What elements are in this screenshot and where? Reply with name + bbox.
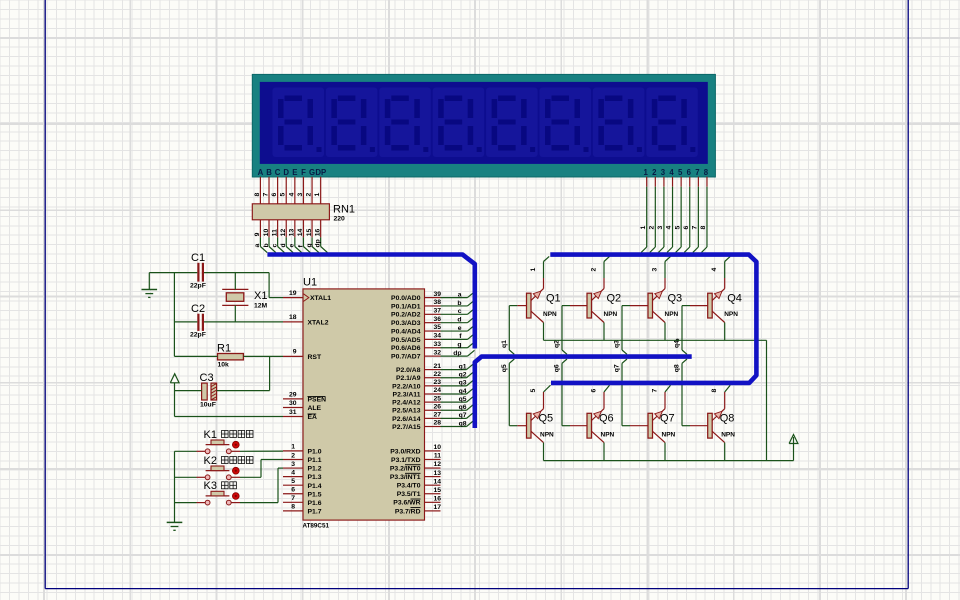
svg-text:4: 4	[666, 226, 673, 230]
svg-text:c: c	[271, 244, 278, 248]
wire: Q8 collector-top to digit bus return (net 8)	[711, 385, 730, 409]
svg-text:12: 12	[433, 461, 441, 468]
svg-text:NPN: NPN	[724, 311, 738, 318]
svg-text:2: 2	[306, 193, 313, 197]
svg-text:C3: C3	[200, 372, 214, 384]
wire: top emitter rail	[544, 340, 767, 460]
wire: Q4 emitter-bottom to rail	[724, 323, 726, 341]
wire: Q1 emitter-bottom to rail	[543, 323, 545, 341]
svg-text:X1: X1	[254, 290, 267, 302]
svg-text:7: 7	[692, 226, 699, 230]
bus: segment bus from RN1 to U1 P0 (nets a-dp)	[267, 255, 474, 349]
svg-text:4: 4	[669, 168, 674, 177]
svg-text:8: 8	[291, 504, 295, 511]
svg-text:1: 1	[530, 268, 537, 272]
transistor Q8 (NPN)	[690, 409, 735, 443]
svg-text:31: 31	[289, 409, 297, 416]
svg-text:22: 22	[433, 371, 441, 378]
svg-text:Q1: Q1	[546, 293, 561, 305]
svg-text:K1: K1	[204, 429, 217, 441]
K1 label (Chinese)	[222, 431, 254, 438]
MCU U1 AT89C51	[303, 277, 425, 530]
svg-text:b: b	[457, 300, 461, 307]
K3 label (Chinese)	[222, 482, 237, 489]
svg-text:15: 15	[306, 229, 313, 237]
svg-text:22pF: 22pF	[190, 332, 206, 339]
transistor Q2 (NPN)	[570, 289, 621, 323]
svg-text:2: 2	[291, 452, 295, 459]
transistor Q4 (NPN)	[690, 289, 742, 323]
svg-text:e: e	[289, 244, 296, 248]
8-digit 7-segment display DS1	[252, 74, 715, 177]
svg-text:P0.3/AD3: P0.3/AD3	[391, 320, 421, 327]
svg-text:3: 3	[291, 461, 295, 468]
svg-text:P2.7/A15: P2.7/A15	[392, 424, 421, 431]
wire: Q4 base to q-bus (net q4)	[674, 306, 691, 355]
wire: bottom emitter rail	[544, 460, 794, 462]
svg-text:q5: q5	[501, 364, 508, 372]
wire: Q7 emitter-bottom to rail	[664, 443, 666, 461]
svg-text:B: B	[266, 168, 272, 177]
wire: K2 to P1.1	[240, 460, 283, 478]
svg-text:P1.2: P1.2	[308, 466, 322, 473]
display segment pins (to RN1)	[254, 177, 321, 204]
U1 pin 19 XTAL1	[283, 290, 331, 302]
svg-text:17: 17	[433, 504, 441, 511]
U1 pins 1-8 P1.0-P1.7	[283, 444, 322, 516]
wire: Q7 collector-top to digit bus return (net 7)	[652, 385, 671, 409]
svg-text:P3.1/TXD: P3.1/TXD	[391, 457, 421, 464]
svg-text:NPN: NPN	[662, 431, 676, 438]
svg-text:11: 11	[434, 453, 441, 460]
svg-text:G: G	[309, 168, 315, 177]
svg-text:5: 5	[674, 226, 681, 230]
svg-text:Q2: Q2	[607, 293, 622, 305]
svg-text:P0.4/AD4: P0.4/AD4	[391, 328, 421, 335]
power +V arrow (at C3)	[170, 374, 179, 391]
svg-text:q3: q3	[614, 340, 621, 348]
capacitor C1 22pF	[190, 252, 206, 290]
U1 pin 31 EA	[283, 409, 317, 421]
svg-text:9: 9	[293, 349, 297, 356]
wire: K3 to P1.2	[240, 468, 283, 503]
svg-text:6: 6	[291, 487, 295, 494]
ground (top left)	[142, 273, 158, 298]
svg-text:NPN: NPN	[721, 431, 735, 438]
push button K2	[197, 455, 241, 480]
svg-text:8: 8	[254, 193, 261, 197]
svg-text:6: 6	[271, 193, 278, 197]
power +V arrow (transistor rail)	[789, 435, 798, 461]
svg-text:10uF: 10uF	[200, 402, 216, 409]
U1 pins 10-17 P3.0-P3.7	[390, 444, 441, 515]
svg-text:22pF: 22pF	[190, 283, 206, 290]
svg-text:P0.1/AD1: P0.1/AD1	[391, 303, 421, 310]
bus: q-bus from U1 P2 to transistor bases (nets q1-q8)	[475, 357, 692, 428]
svg-text:10: 10	[433, 444, 441, 451]
svg-text:q4: q4	[459, 388, 467, 395]
wire: Q7 base from q-bus (net q7)	[614, 359, 631, 426]
wire: Q6 emitter-bottom to rail	[603, 443, 605, 461]
svg-text:15: 15	[433, 487, 441, 494]
svg-text:R1: R1	[217, 343, 231, 355]
svg-text:39: 39	[433, 291, 441, 298]
svg-text:6: 6	[683, 226, 690, 230]
svg-text:q3: q3	[459, 380, 467, 387]
svg-text:21: 21	[433, 363, 441, 370]
wire: C3 row	[175, 390, 270, 392]
svg-text:d: d	[457, 316, 461, 323]
wire: Q8 base from q-bus (net q8)	[674, 359, 691, 426]
svg-text:2: 2	[591, 268, 598, 272]
svg-text:q5: q5	[459, 396, 467, 403]
svg-text:E: E	[292, 168, 297, 177]
svg-text:P1.4: P1.4	[308, 483, 322, 490]
svg-text:K3: K3	[204, 480, 217, 492]
svg-text:2: 2	[652, 168, 657, 177]
svg-text:7: 7	[695, 168, 699, 177]
svg-text:1: 1	[644, 168, 649, 177]
U1 pin 9 RST	[283, 349, 322, 361]
svg-text:q7: q7	[459, 412, 467, 419]
svg-text:7: 7	[291, 495, 295, 502]
ground (buttons)	[167, 522, 183, 530]
svg-text:NPN: NPN	[601, 431, 615, 438]
svg-text:P2.0/A8: P2.0/A8	[396, 367, 421, 374]
svg-text:26: 26	[433, 403, 441, 410]
svg-text:ALE: ALE	[308, 405, 322, 412]
bus: digit bus from display to transistors (nets 1-8)	[550, 255, 756, 383]
svg-text:30: 30	[289, 400, 297, 407]
svg-text:A: A	[258, 168, 264, 177]
wire: C1 row to XTAL1	[149, 273, 283, 298]
svg-text:q1: q1	[501, 340, 508, 348]
wire: Q1 collector-top to digit bus (net 1)	[530, 256, 549, 288]
svg-text:2: 2	[649, 226, 656, 230]
svg-text:1: 1	[291, 444, 295, 451]
svg-text:5: 5	[280, 193, 287, 197]
svg-text:10: 10	[263, 229, 270, 237]
svg-text:d: d	[280, 243, 287, 247]
svg-text:AT89C51: AT89C51	[303, 523, 330, 530]
svg-text:5: 5	[678, 168, 683, 177]
wire: Q3 base to q-bus (net q3)	[614, 306, 631, 355]
svg-text:C1: C1	[191, 252, 205, 264]
svg-text:1: 1	[640, 226, 647, 230]
svg-text:NPN: NPN	[543, 311, 557, 318]
svg-text:C2: C2	[191, 303, 205, 315]
svg-text:5: 5	[530, 389, 537, 393]
svg-text:10k: 10k	[218, 362, 230, 369]
wire: Q8 emitter-bottom to rail	[724, 443, 726, 461]
RN1 bottom pins 9-16 with net labels a-dp	[254, 220, 327, 253]
svg-text:8: 8	[704, 168, 709, 177]
svg-text:XTAL2: XTAL2	[308, 320, 329, 327]
resistor R1 10k	[217, 343, 243, 369]
svg-text:P1.7: P1.7	[308, 508, 322, 515]
transistor Q3 (NPN)	[630, 289, 682, 323]
svg-text:3: 3	[661, 168, 666, 177]
wire: Q2 emitter-bottom to rail	[603, 323, 605, 341]
svg-text:g: g	[306, 243, 313, 247]
svg-text:P2.1/A9: P2.1/A9	[396, 375, 421, 382]
U1 pin 30 ALE	[283, 400, 322, 412]
svg-text:19: 19	[289, 290, 297, 297]
svg-text:P3.0/RXD: P3.0/RXD	[390, 448, 420, 455]
svg-text:14: 14	[433, 478, 441, 485]
U1 pin 18 XTAL2	[283, 314, 329, 326]
wire: K1 to P1.0	[240, 450, 283, 452]
wire: X1 stems	[234, 273, 236, 322]
svg-text:Q6: Q6	[599, 413, 614, 425]
wire: Q5 base from q-bus (net q5)	[501, 359, 518, 426]
svg-text:NPN: NPN	[665, 311, 679, 318]
svg-text:P0.7/AD7: P0.7/AD7	[391, 354, 421, 361]
svg-text:27: 27	[433, 412, 441, 419]
wire: Q2 base to q-bus (net q2)	[554, 306, 571, 355]
svg-text:23: 23	[433, 379, 441, 386]
svg-text:RST: RST	[308, 354, 322, 361]
svg-text:P3.5/T1: P3.5/T1	[397, 491, 421, 498]
svg-text:XTAL1: XTAL1	[310, 295, 331, 302]
svg-text:P1.3: P1.3	[308, 474, 322, 481]
svg-text:q2: q2	[554, 340, 561, 348]
svg-text:g: g	[457, 342, 461, 349]
svg-text:8: 8	[700, 226, 707, 230]
svg-text:NPN: NPN	[540, 431, 554, 438]
svg-text:P0.2/AD2: P0.2/AD2	[391, 312, 421, 319]
svg-text:U1: U1	[303, 277, 317, 289]
svg-text:3: 3	[297, 193, 304, 197]
svg-text:DP: DP	[315, 168, 326, 177]
push button K3	[197, 480, 241, 505]
svg-text:dp: dp	[453, 350, 461, 357]
svg-text:q6: q6	[554, 364, 561, 372]
svg-text:P2.3/A11: P2.3/A11	[393, 391, 421, 398]
svg-text:c: c	[458, 308, 462, 315]
svg-text:1: 1	[314, 193, 321, 197]
svg-text:5: 5	[291, 478, 295, 485]
svg-text:b: b	[263, 243, 270, 247]
svg-text:12: 12	[280, 229, 287, 237]
svg-text:Q5: Q5	[539, 413, 554, 425]
display segment labels ABCDEFG DP	[258, 168, 327, 177]
svg-text:Q4: Q4	[727, 293, 742, 305]
junction dot on emitter rail	[676, 339, 679, 342]
svg-text:9: 9	[254, 232, 261, 236]
svg-text:P3.4/T0: P3.4/T0	[397, 483, 421, 490]
svg-text:P0.5/AD5: P0.5/AD5	[391, 337, 421, 344]
svg-text:P3.6/WR: P3.6/WR	[393, 500, 420, 507]
svg-text:P3.7/RD: P3.7/RD	[395, 508, 421, 515]
transistor Q6 (NPN)	[570, 409, 615, 443]
svg-text:33: 33	[433, 341, 441, 348]
svg-text:K2: K2	[204, 455, 217, 467]
svg-text:P2.2/A10: P2.2/A10	[392, 383, 421, 390]
svg-text:F: F	[301, 168, 306, 177]
svg-text:P1.6: P1.6	[308, 500, 322, 507]
capacitor C2 22pF	[190, 303, 206, 338]
svg-text:220: 220	[334, 216, 346, 223]
svg-text:12M: 12M	[254, 303, 268, 310]
svg-text:P1.0: P1.0	[308, 449, 322, 456]
svg-text:a: a	[254, 244, 261, 248]
svg-text:13: 13	[433, 470, 441, 477]
svg-text:29: 29	[289, 391, 297, 398]
svg-text:3: 3	[657, 226, 664, 230]
U1 pin 29 PSEN	[283, 391, 326, 403]
svg-text:dp: dp	[314, 239, 321, 247]
wire: C2 row to XTAL2	[174, 321, 283, 323]
U1 pins 21-28 P2.0/A8-P2.7/A15 (wires to q-bus, nets q1-q8)	[392, 363, 473, 431]
svg-text:Q3: Q3	[668, 293, 683, 305]
svg-text:28: 28	[433, 420, 441, 427]
wire: Q2 collector-top to digit bus (net 2)	[591, 256, 610, 288]
wire: Q5 emitter-bottom to rail	[543, 443, 545, 461]
wire: Q5 collector-top to digit bus return (net 5)	[530, 385, 551, 409]
svg-text:16: 16	[314, 229, 321, 237]
svg-text:34: 34	[433, 333, 441, 340]
svg-text:P1.5: P1.5	[308, 491, 322, 498]
svg-text:7: 7	[652, 389, 659, 393]
svg-text:q6: q6	[459, 404, 467, 411]
wire: button left rail to ground	[175, 451, 197, 522]
svg-text:32: 32	[433, 349, 441, 356]
svg-text:38: 38	[433, 299, 441, 306]
svg-text:q2: q2	[459, 372, 467, 379]
svg-text:P3.3/INT1: P3.3/INT1	[390, 474, 421, 481]
svg-text:q1: q1	[459, 363, 467, 370]
svg-text:RN1: RN1	[333, 204, 355, 216]
svg-text:P0.6/AD6: P0.6/AD6	[391, 345, 421, 352]
svg-text:4: 4	[288, 193, 295, 197]
svg-text:P1.1: P1.1	[308, 457, 322, 464]
svg-text:36: 36	[433, 316, 441, 323]
svg-text:Q7: Q7	[660, 413, 675, 425]
svg-text:7: 7	[263, 193, 270, 197]
transistor Q5 (NPN)	[517, 409, 554, 443]
svg-text:D: D	[283, 168, 289, 177]
svg-text:C: C	[275, 168, 281, 177]
wire: Q3 collector-top to digit bus (net 3)	[652, 256, 671, 288]
wire: Q3 emitter-bottom to rail	[664, 323, 666, 341]
display digit labels 12345678	[644, 168, 709, 177]
svg-text:EA: EA	[308, 414, 318, 421]
svg-text:P2.6/A14: P2.6/A14	[392, 416, 421, 423]
transistor Q7 (NPN)	[630, 409, 676, 443]
U1 pins 39-32 P0.0/AD0-P0.7/AD7 (wires to segment bus, nets a-dp)	[391, 291, 474, 361]
crystal X1 12M	[222, 289, 267, 309]
K2 label (Chinese)	[222, 457, 254, 464]
svg-text:35: 35	[433, 324, 441, 331]
svg-text:q8: q8	[459, 420, 467, 427]
wire: Q1 base to q-bus (net q1)	[501, 306, 518, 355]
svg-text:P2.5/A13: P2.5/A13	[392, 408, 421, 415]
svg-text:16: 16	[433, 496, 441, 503]
svg-text:P0.0/AD0: P0.0/AD0	[391, 295, 421, 302]
transistor Q1 (NPN)	[517, 289, 560, 323]
svg-text:q8: q8	[674, 364, 681, 372]
svg-text:4: 4	[291, 469, 295, 476]
svg-text:P3.2/INT0: P3.2/INT0	[390, 465, 421, 472]
svg-text:a: a	[458, 291, 462, 298]
svg-text:Q8: Q8	[720, 413, 735, 425]
svg-text:PSEN: PSEN	[308, 397, 327, 404]
svg-text:8: 8	[711, 389, 718, 393]
svg-text:13: 13	[289, 229, 296, 237]
svg-text:4: 4	[711, 268, 718, 272]
svg-text:6: 6	[591, 389, 598, 393]
svg-text:37: 37	[433, 308, 441, 315]
wire: EA to power rail	[175, 391, 284, 417]
svg-text:P2.4/A12: P2.4/A12	[392, 400, 421, 407]
svg-text:18: 18	[289, 314, 297, 321]
resistor network RN1 220	[252, 204, 355, 223]
svg-text:24: 24	[433, 387, 441, 394]
svg-text:25: 25	[433, 395, 441, 402]
svg-text:14: 14	[297, 229, 304, 237]
svg-text:6: 6	[687, 168, 692, 177]
wire: Q6 collector-top to digit bus return (net 6)	[591, 385, 610, 409]
svg-text:11: 11	[271, 229, 278, 236]
wire: left rail	[173, 273, 175, 357]
svg-text:e: e	[458, 325, 462, 332]
wire: R1 row to RST	[174, 356, 283, 390]
svg-text:3: 3	[652, 268, 659, 272]
wire: Q4 collector-top to digit bus (net 4)	[711, 256, 730, 288]
push button K1	[197, 429, 241, 454]
wire: Q6 base from q-bus (net q6)	[554, 359, 571, 426]
svg-text:NPN: NPN	[604, 311, 618, 318]
svg-text:q7: q7	[614, 364, 621, 372]
capacitor C3 10uF (electrolytic)	[200, 372, 217, 409]
display digit pins 1-8 (wires to digit bus)	[640, 177, 707, 253]
